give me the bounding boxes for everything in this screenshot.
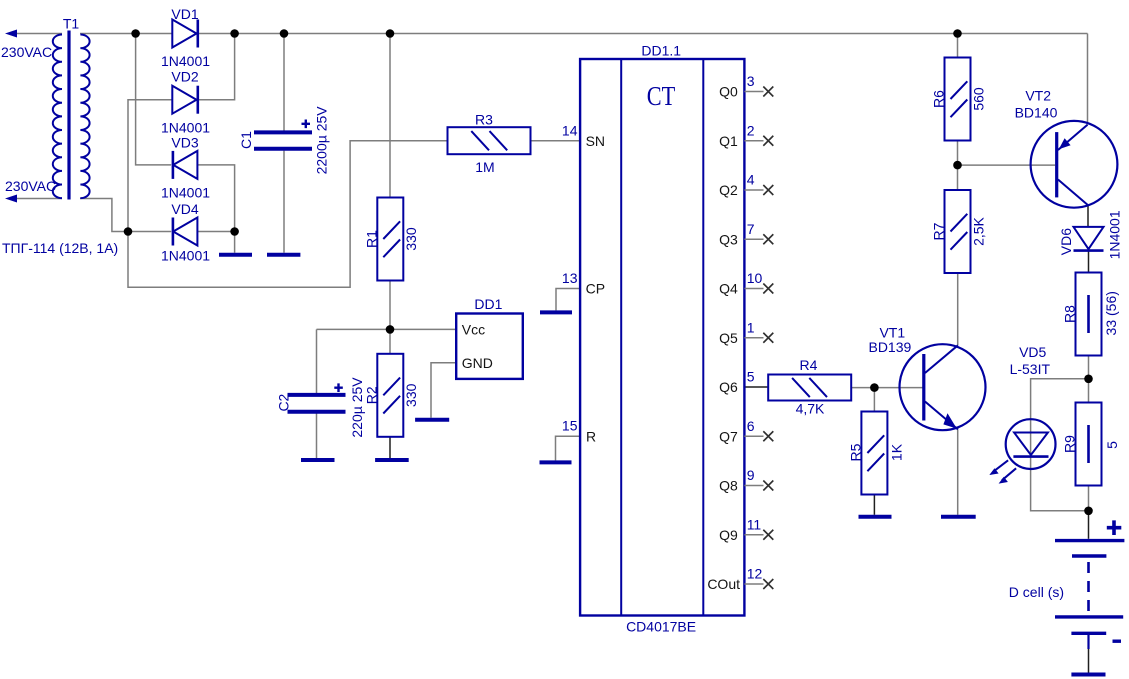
resistor R9 5 [1062, 403, 1121, 486]
svg-text:220µ 25V: 220µ 25V [349, 377, 365, 438]
svg-text:15: 15 [562, 418, 578, 434]
wire: battery node down to battery plus plate [1088, 511, 1090, 539]
diode VD6 1N4001 [1058, 210, 1123, 259]
transformer T1 [1, 16, 118, 257]
resistor R3 1M [448, 112, 531, 176]
svg-text:1N4001: 1N4001 [161, 120, 210, 136]
diode VD1 1N4001 [161, 6, 210, 69]
wire: VT1 emitter down to ground [957, 429, 959, 514]
resistor R4 4,7K [768, 357, 851, 417]
ground: battery minus [1071, 673, 1105, 677]
svg-text:2: 2 [747, 122, 755, 138]
wire: C2 top stub [316, 329, 318, 393]
wire: Vcc node to R2 top [389, 329, 391, 353]
battery D cell (s) [1009, 520, 1125, 649]
diode VD4 1N4001 [161, 201, 210, 264]
wire: base node to VT2 base [958, 164, 1056, 166]
svg-text:CP: CP [586, 281, 605, 297]
wire: VD2 anode row to node B vertical [128, 100, 172, 232]
ground: R5 [859, 515, 892, 519]
LED VD5 L-53IT [989, 344, 1055, 484]
svg-text:DD1: DD1 [474, 296, 502, 312]
junction dot: R8/R9/LED node [1084, 375, 1093, 384]
svg-text:VD3: VD3 [171, 135, 198, 151]
wire: Vcc node row to DD1 Vcc pin [317, 328, 457, 330]
pin Q7 6 unconnected [719, 418, 773, 445]
wire: top rail down to R6 top [957, 34, 959, 58]
svg-text:Q0: Q0 [719, 84, 738, 100]
wire: transformer secondary bottom pin to node B [80, 199, 128, 232]
junction dot: top rail / VD2 cathode [230, 29, 239, 38]
svg-text:VD4: VD4 [171, 201, 198, 217]
svg-text:Q8: Q8 [719, 478, 738, 494]
junction dot: top rail / node A [131, 29, 140, 38]
svg-text:7: 7 [747, 221, 755, 237]
svg-text:R3: R3 [475, 112, 493, 128]
wire: node B to VD4 cathode [128, 231, 171, 233]
transistor VT2 BD140 pnp [1015, 87, 1118, 207]
svg-text:Q7: Q7 [719, 428, 738, 444]
svg-text:R1: R1 [364, 230, 380, 248]
svg-text:R8: R8 [1062, 305, 1078, 323]
wire: DD1 GND pin to ground [431, 363, 456, 418]
pin Q5 1 unconnected [719, 319, 773, 346]
svg-text:VD1: VD1 [171, 6, 198, 22]
svg-text:VD2: VD2 [171, 69, 198, 85]
svg-text:Q4: Q4 [719, 281, 738, 297]
svg-text:4: 4 [747, 172, 755, 188]
wire: CP pin stub to ground [556, 289, 580, 311]
svg-text:560: 560 [971, 87, 987, 111]
svg-text:R5: R5 [848, 443, 864, 461]
svg-text:33 (56): 33 (56) [1103, 291, 1119, 335]
wire: R5 bottom to ground [873, 495, 875, 515]
svg-text:330: 330 [403, 383, 419, 407]
svg-text:14: 14 [562, 122, 578, 138]
capacitor C2 220u 25V [276, 377, 366, 438]
junction dot: R9/LED/battery node [1084, 507, 1093, 516]
pin Q0 3 unconnected [719, 73, 773, 100]
wire: R2 bottom to ground [389, 437, 391, 458]
resistor R8 33 (56) [1062, 273, 1120, 356]
svg-text:VT2: VT2 [1025, 87, 1051, 103]
svg-text:D cell (s): D cell (s) [1009, 584, 1064, 600]
svg-text:VD5: VD5 [1019, 344, 1046, 360]
svg-text:1N4001: 1N4001 [161, 53, 210, 69]
svg-text:1N4001: 1N4001 [1107, 210, 1123, 259]
svg-text:6: 6 [747, 418, 755, 434]
wire: R1 bottom to Vcc node [389, 281, 391, 330]
svg-text:1N4001: 1N4001 [161, 248, 210, 264]
svg-text:DD1.1: DD1.1 [641, 43, 681, 59]
diode VD2 1N4001 [161, 69, 210, 136]
junction dot: top rail / C1 [280, 29, 289, 38]
svg-text:R2: R2 [364, 386, 380, 404]
svg-text:R: R [586, 428, 596, 444]
svg-text:1N4001: 1N4001 [161, 185, 210, 201]
svg-text:Vcc: Vcc [462, 322, 485, 338]
resistor R6 560 [931, 58, 987, 141]
svg-text:Q5: Q5 [719, 330, 738, 346]
resistor R2 330 [364, 354, 420, 437]
svg-text:230VAC: 230VAC [5, 178, 56, 194]
wire: R pin stub to ground [556, 436, 581, 460]
wire: VD4 anode to ground node [197, 232, 234, 253]
svg-text:Q6: Q6 [719, 379, 738, 395]
svg-text:Q2: Q2 [719, 182, 738, 198]
svg-text:Q3: Q3 [719, 231, 738, 247]
svg-text:2200µ 25V: 2200µ 25V [314, 106, 330, 175]
pin R 15 [562, 418, 596, 445]
wire: R9 bottom to battery node [1088, 486, 1090, 511]
wire: VT2 collector down to VD6 anode [1087, 205, 1089, 227]
pin Q6 5 connected to R4 [719, 369, 755, 396]
svg-text:R7: R7 [931, 222, 947, 240]
svg-text:10: 10 [747, 270, 763, 286]
resistor R7 2,5K [931, 190, 987, 273]
wire: R8 bottom to R9 top through LED node [1088, 356, 1090, 403]
pin COut 12 unconnected [707, 566, 773, 593]
wire: base node down to R5 top [873, 388, 875, 412]
svg-text:13: 13 [562, 270, 578, 286]
svg-text:2,5K: 2,5K [971, 216, 987, 245]
junction dot: top rail / R6 [953, 29, 962, 38]
svg-text:9: 9 [747, 467, 755, 483]
wire: VT2 emitter up to top rail [1087, 34, 1089, 125]
svg-text:BD139: BD139 [868, 339, 911, 355]
svg-text:T1: T1 [63, 16, 80, 32]
IC DD1 power block [456, 296, 523, 379]
wire: top rail down to R1 top [389, 34, 391, 198]
ground: VD3 VD4 anodes [219, 253, 252, 257]
ground: R pin [540, 460, 572, 464]
wire: C2 bottom stub to ground [316, 414, 318, 459]
wire: VD2 cathode up to top rail [199, 34, 235, 100]
wire: VD6 cathode to R8 top [1088, 250, 1090, 272]
svg-text:BD140: BD140 [1015, 105, 1058, 121]
wire: C1 bottom plate to ground [283, 151, 285, 253]
wire: VD3 anode down to VD4 row [197, 165, 234, 232]
wire: R6 bottom to R7 top through base node [957, 141, 959, 191]
svg-text:330: 330 [403, 227, 419, 251]
wire: transformer primary bottom pin [10, 198, 62, 200]
ground: R2 [375, 458, 409, 462]
svg-text:COut: COut [707, 576, 740, 592]
svg-text:CD4017BE: CD4017BE [626, 619, 696, 635]
diode VD3 1N4001 [161, 135, 210, 201]
svg-text:L-53IT: L-53IT [1010, 361, 1051, 377]
wire: Q6 pin to R4 left [744, 386, 768, 388]
svg-text:5: 5 [747, 369, 755, 385]
svg-text:C2: C2 [276, 393, 292, 411]
junction dot: top rail / R1 [386, 29, 395, 38]
capacitor C1 2200u 25V [238, 106, 330, 175]
junction dot: node B at VD4 row [124, 227, 133, 236]
wire: transformer primary top pin [10, 33, 62, 35]
resistor R1 330 [364, 198, 420, 281]
svg-text:C1: C1 [238, 131, 254, 149]
svg-text:Q9: Q9 [719, 527, 738, 543]
wire: R3 right to SN pin [531, 140, 581, 142]
svg-text:GND: GND [462, 355, 493, 371]
ground: VT1 emitter [941, 515, 976, 519]
svg-text:5: 5 [1104, 441, 1120, 449]
svg-text:ТПГ-114 (12В, 1А): ТПГ-114 (12В, 1А) [2, 240, 118, 256]
pin Q3 7 unconnected [719, 221, 773, 248]
svg-text:VD6: VD6 [1058, 228, 1074, 255]
ground: DD1 GND [415, 418, 449, 422]
IC DD1.1 CD4017BE counter block [580, 43, 744, 635]
ground: C1 [267, 253, 300, 257]
pin Q1 2 unconnected [719, 122, 773, 149]
pin CP 13 [562, 270, 605, 297]
pin Q8 9 unconnected [719, 467, 773, 494]
ground: C2 [301, 458, 335, 462]
svg-text:R9: R9 [1062, 435, 1078, 453]
svg-text:R4: R4 [800, 357, 818, 373]
svg-text:12: 12 [747, 566, 763, 582]
svg-text:230VAC: 230VAC [1, 44, 52, 60]
svg-text:3: 3 [747, 73, 755, 89]
svg-text:Q1: Q1 [719, 133, 738, 149]
svg-text:CT: CT [647, 81, 676, 111]
svg-text:11: 11 [747, 516, 762, 532]
svg-text:1K: 1K [889, 443, 905, 461]
pin Q4 10 unconnected [719, 270, 773, 297]
resistor R5 1K [848, 412, 905, 495]
wire: node A drop from top rail to VD3 cathode [136, 34, 171, 165]
wire: node B feed down and across to R3 left [128, 141, 448, 288]
wire: VT1 collector up to R7 bottom [957, 273, 959, 345]
wire: top DC+ rail [80, 33, 1088, 35]
wire: top rail down to C1 top plate [283, 34, 285, 131]
wire: LED branch parallel to R9 [1031, 379, 1089, 511]
svg-text:R6: R6 [931, 90, 947, 108]
svg-text:1: 1 [747, 319, 755, 335]
svg-text:4,7K: 4,7K [796, 401, 825, 417]
wire: battery minus stem to ground [1088, 648, 1090, 673]
junction dot: VD4 anode / VD3 anode / ground [230, 227, 239, 236]
pin Q9 11 unconnected [719, 516, 773, 543]
pin SN 14 [562, 122, 605, 149]
svg-text:SN: SN [586, 133, 605, 149]
pin Q2 4 unconnected [719, 172, 773, 199]
svg-text:1M: 1M [475, 159, 494, 175]
ground: CP pin [540, 310, 572, 314]
junction dot: R4/R5/VT1 base node [870, 383, 879, 392]
transistor VT1 BD139 npn [868, 325, 985, 431]
junction dot: Vcc node [386, 325, 395, 334]
junction dot: R6/R7/VT2 base node [953, 161, 962, 170]
wire: R4 right to VT1 base [851, 387, 923, 389]
